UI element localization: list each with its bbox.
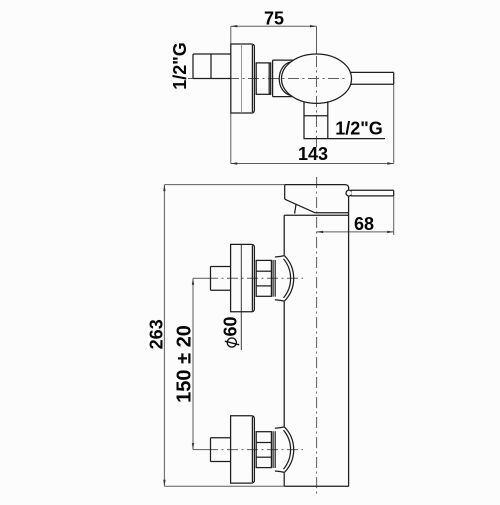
svg-text:1/2"G: 1/2"G xyxy=(335,118,383,138)
svg-text:1/2"G: 1/2"G xyxy=(170,42,190,90)
svg-text:263: 263 xyxy=(147,319,167,349)
svg-text:68: 68 xyxy=(354,214,374,234)
svg-text:75: 75 xyxy=(264,8,284,28)
svg-text:150 ± 20: 150 ± 20 xyxy=(174,325,196,403)
svg-text:143: 143 xyxy=(298,144,328,164)
svg-text:60: 60 xyxy=(220,316,240,336)
